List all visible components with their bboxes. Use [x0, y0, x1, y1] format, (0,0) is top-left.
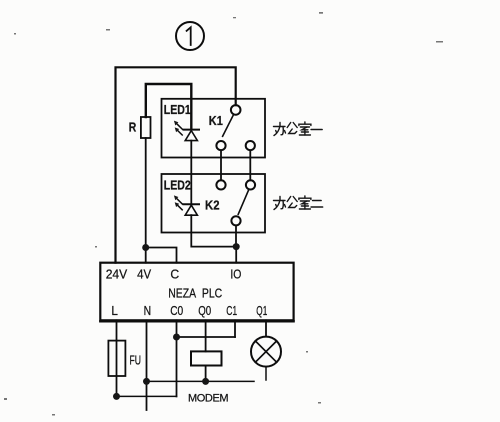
svg-text:FU: FU	[130, 354, 142, 368]
svg-text:L: L	[111, 304, 118, 318]
svg-text:NEZA PLC: NEZA PLC	[168, 287, 222, 301]
svg-text:LED2: LED2	[164, 177, 191, 192]
svg-text:IO: IO	[230, 267, 241, 281]
svg-text:MODEM: MODEM	[188, 393, 228, 405]
svg-text:Q0: Q0	[198, 304, 211, 318]
svg-text:C1: C1	[226, 304, 237, 318]
svg-text:4V: 4V	[137, 267, 152, 281]
svg-text:LED1: LED1	[164, 102, 191, 117]
svg-text:N: N	[144, 304, 152, 318]
svg-text:K2: K2	[205, 198, 220, 213]
svg-text:Q1: Q1	[256, 304, 267, 318]
svg-text:C: C	[170, 267, 179, 281]
svg-text:K1: K1	[209, 113, 223, 128]
svg-text:R: R	[129, 120, 137, 134]
svg-text:C0: C0	[170, 304, 183, 318]
svg-text:24V: 24V	[106, 267, 128, 281]
